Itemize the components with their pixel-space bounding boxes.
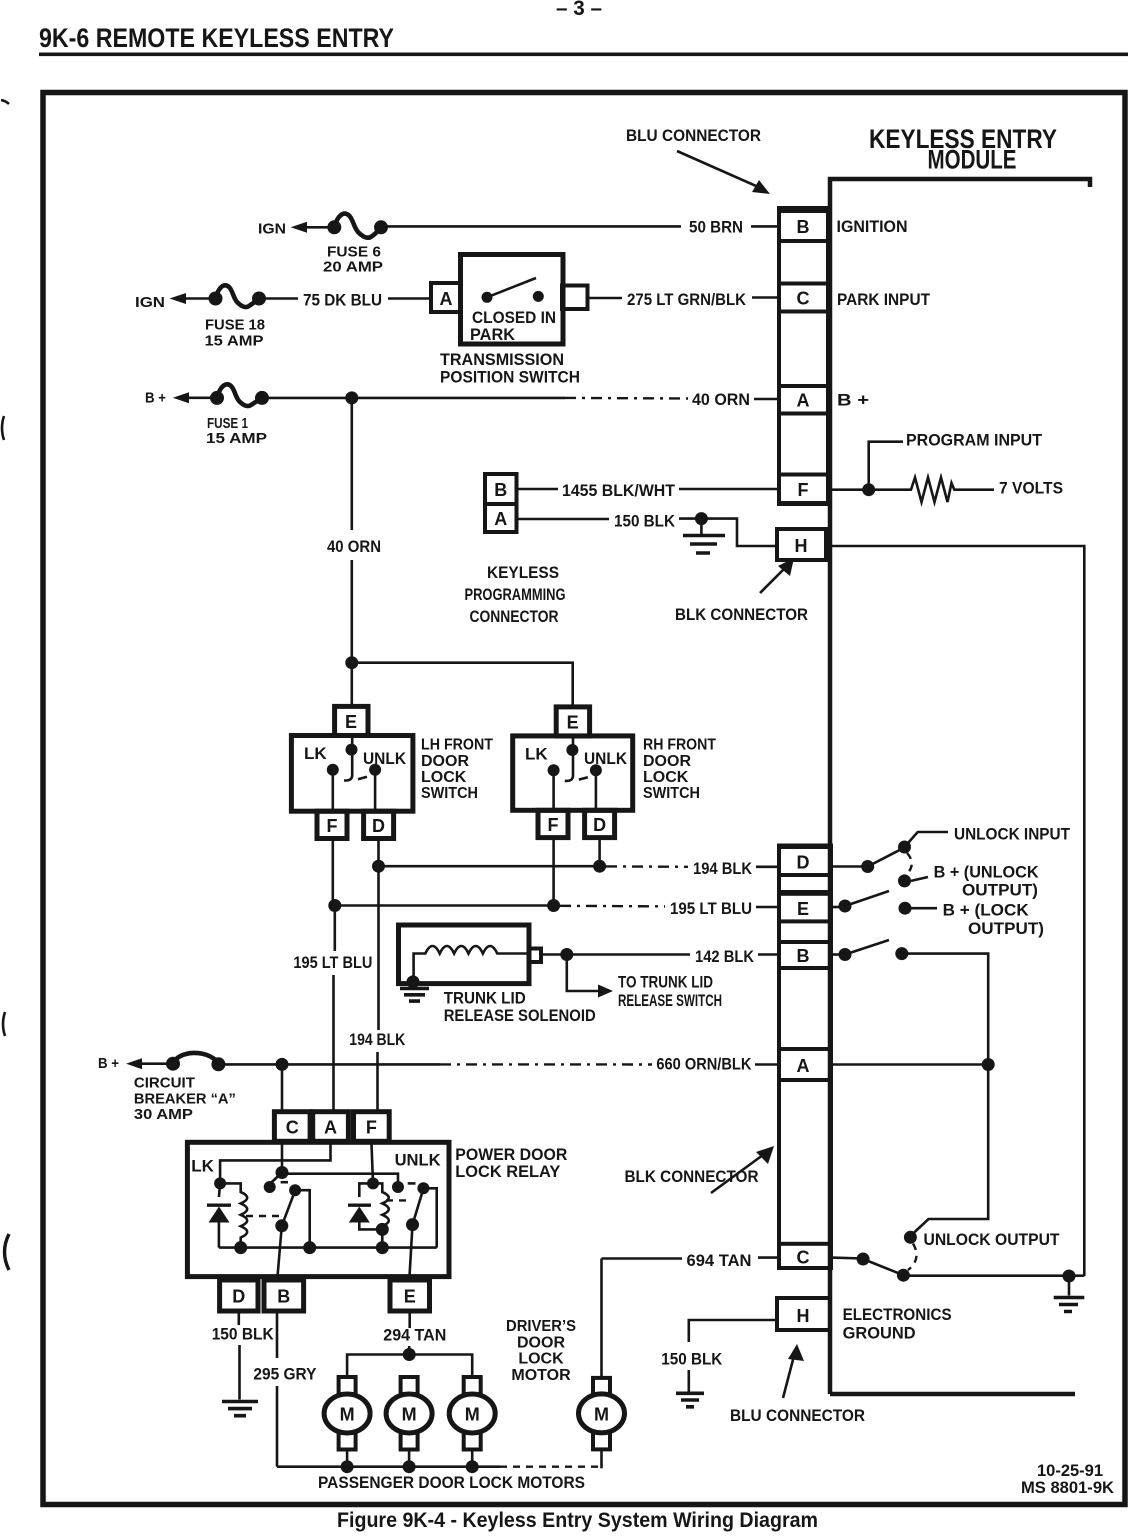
motor M2 body — [386, 1394, 432, 1433]
BLK connector strip outline — [779, 846, 831, 1269]
svg-text:A: A — [494, 509, 507, 529]
fuse F6 20A — [334, 214, 381, 238]
wire 195 LT BLU row — [335, 904, 554, 907]
wire relay E down 294 TAN — [408, 1311, 411, 1355]
svg-text:CONNECTOR: CONNECTOR — [470, 607, 559, 626]
node LH F 195 — [328, 899, 341, 912]
wire 275 LT GRN/BLK — [588, 297, 623, 300]
svg-text:DOOR: DOOR — [643, 753, 691, 770]
wire tick to pin A — [754, 398, 779, 401]
node LK common feed — [276, 1166, 289, 1179]
node LK NO contact bottom — [303, 1241, 316, 1254]
ground symbol solenoid — [400, 989, 429, 1002]
motor M1 bottom tab — [339, 1433, 356, 1450]
svg-text:15 AMP: 15 AMP — [205, 333, 264, 350]
svg-text:D: D — [797, 853, 810, 873]
svg-text:DOOR: DOOR — [421, 753, 469, 770]
keyless entry module outline — [830, 179, 1090, 1394]
svg-text:A: A — [797, 391, 810, 411]
LH switch pin E box — [335, 706, 368, 735]
node 294 TAN bus — [403, 1348, 416, 1361]
svg-text:B +: B + — [145, 390, 166, 407]
left margin scan mark 2 — [2, 416, 4, 440]
LH UNLK contact dot — [369, 764, 381, 776]
wire C into relay — [281, 1141, 284, 1172]
wire 694 TAN down to drivers motor — [600, 1259, 603, 1378]
LK arm tip dot — [289, 1184, 301, 1196]
wire program input riser — [869, 442, 903, 490]
LH pin F box — [317, 811, 347, 838]
wire 195 dash-dot — [560, 905, 665, 908]
pin C cell — [779, 284, 828, 312]
node program input — [862, 483, 875, 496]
svg-text:POSITION SWITCH: POSITION SWITCH — [440, 368, 580, 387]
wire branch to LH switch — [350, 663, 353, 707]
motor M1 bottom stub — [346, 1450, 349, 1467]
svg-text:H: H — [795, 536, 808, 556]
UNLK pivot to E terminal — [410, 1225, 413, 1277]
LK diode triangle — [209, 1207, 230, 1223]
left margin scan mark 1 — [1, 100, 9, 104]
wire 195 tick to pin E — [756, 906, 779, 909]
LH front door lock switch box — [291, 736, 413, 812]
svg-text:E: E — [345, 712, 357, 732]
B+ arrowhead row3 — [173, 392, 189, 403]
wire node to pin H — [701, 519, 777, 546]
wire 195 vertical lower — [332, 975, 335, 1112]
svg-text:ELECTRONICS: ELECTRONICS — [843, 1305, 952, 1324]
BLU connector arrowhead — [752, 180, 770, 194]
node B common — [839, 948, 852, 961]
driver motor M4 bottom tab — [593, 1432, 610, 1449]
ground stub right — [1068, 1276, 1071, 1296]
svg-text:MOTOR: MOTOR — [511, 1367, 571, 1384]
RH pin F box — [538, 810, 568, 837]
wire 142 tick to pin B — [758, 953, 779, 956]
wire 194 vertical lower — [376, 1052, 379, 1112]
divider cell DE — [779, 875, 831, 892]
trunk release arrowhead — [598, 985, 613, 998]
svg-text:D: D — [593, 815, 606, 835]
motor return bus — [277, 1465, 500, 1468]
svg-text:M: M — [340, 1405, 355, 1425]
E switch arm open — [845, 891, 889, 906]
BLKCONN — [602, 846, 952, 1426]
fuse F1 left dot — [210, 391, 224, 405]
pin B cell lower — [779, 942, 831, 968]
svg-text:LOCK: LOCK — [518, 1351, 564, 1368]
node RH F 195 — [547, 899, 560, 912]
wire tick to pin C — [752, 296, 779, 299]
UNLK common contact dot — [392, 1181, 404, 1193]
svg-text:M: M — [402, 1405, 417, 1425]
node A bus junction — [982, 1058, 995, 1071]
svg-text:295 GRY: 295 GRY — [253, 1365, 317, 1384]
wire node to LK contact — [270, 1173, 282, 1185]
LK diode branch — [219, 1183, 220, 1247]
svg-text:UNLK: UNLK — [363, 749, 407, 768]
svg-text:660 ORN/BLK: 660 ORN/BLK — [656, 1055, 752, 1074]
svg-text:15 AMP: 15 AMP — [206, 430, 267, 447]
node fuse1 to 40 ORN vertical — [345, 391, 358, 404]
UNLK arm tip dot — [417, 1182, 429, 1194]
svg-text:RH FRONT: RH FRONT — [643, 737, 716, 754]
wire unlock input — [905, 832, 949, 847]
svg-text:40 ORN: 40 ORN — [692, 390, 750, 409]
SWITCHES — [291, 706, 779, 1112]
LK coil dashed linkage — [246, 1215, 281, 1217]
motor M1 top tab — [339, 1377, 356, 1394]
svg-text:B +: B + — [837, 391, 869, 410]
resistor 7 volts — [869, 478, 994, 503]
RH UNLK contact dot — [590, 764, 602, 776]
motor M2 bottom tab — [401, 1433, 418, 1450]
driver motor M4 body — [579, 1394, 625, 1433]
LH LK contact wire — [331, 770, 334, 812]
RH LK contact wire — [552, 770, 555, 812]
svg-text:IGNITION: IGNITION — [837, 217, 908, 236]
node B+ unlock output — [898, 874, 911, 887]
40 ORN vertical wire lower — [350, 560, 353, 663]
left margin scan mark 4 — [5, 1234, 10, 1270]
IGN arrowhead row2 — [170, 293, 187, 304]
wire relay B down 295 GRY — [276, 1311, 279, 1467]
LH throw dash — [358, 777, 367, 779]
svg-text:9K-6 REMOTE KEYLESS ENTRY: 9K-6 REMOTE KEYLESS ENTRY — [39, 23, 394, 53]
wire LH F down — [331, 839, 334, 906]
UNLK diode branch — [359, 1183, 382, 1229]
svg-text:194 BLK: 194 BLK — [349, 1030, 406, 1049]
wire node to relay pin C — [281, 1064, 284, 1112]
svg-text:B + (LOCK: B + (LOCK — [943, 901, 1030, 920]
wire pin F to junction — [830, 488, 870, 491]
driver motor M4 top tab — [593, 1378, 610, 1395]
MOTORS — [277, 1318, 625, 1492]
svg-text:F: F — [366, 1118, 377, 1138]
svg-text:OUTPUT): OUTPUT) — [962, 881, 1038, 900]
svg-text:294 TAN: 294 TAN — [383, 1326, 446, 1345]
fuse F1 15A — [217, 384, 262, 406]
fuse F18 left dot — [209, 292, 223, 306]
wire pin H bottom left — [689, 1320, 777, 1342]
wire 40 ORN horizontal — [264, 397, 565, 400]
RH throw dash — [579, 777, 588, 779]
svg-text:RELEASE SWITCH: RELEASE SWITCH — [618, 991, 722, 1010]
svg-text:M: M — [465, 1405, 480, 1425]
power door lock relay box — [187, 1142, 449, 1276]
wire tab to node — [541, 953, 567, 956]
LK pivot to B terminal — [278, 1226, 282, 1277]
node M3 return — [466, 1460, 479, 1473]
LH LK contact dot — [327, 764, 339, 776]
motor M3 bottom stub — [471, 1450, 474, 1467]
svg-text:E: E — [404, 1287, 416, 1307]
B+ arrowhead breaker — [126, 1058, 142, 1069]
module bottom edge — [830, 1392, 1075, 1397]
LK common contact dot — [264, 1181, 276, 1193]
ground symbol prog — [683, 536, 725, 554]
svg-text:IGN: IGN — [258, 221, 286, 238]
wire to pin A of switch — [388, 297, 431, 300]
BLK connector upper arrowhead — [778, 558, 794, 576]
svg-text:LK: LK — [304, 744, 327, 763]
wire 694 TAN — [602, 1257, 683, 1260]
LK diode cathode bar — [207, 1203, 231, 1206]
svg-text:UNLK: UNLK — [584, 749, 628, 768]
node M2 return — [403, 1460, 416, 1473]
pin D cell lower — [779, 847, 831, 875]
wire 150 BLK right — [679, 517, 701, 520]
RH switch pin E box — [556, 707, 589, 736]
motor M3 bottom tab — [464, 1433, 481, 1450]
UNLK coil — [373, 1183, 389, 1247]
RH pole dot — [566, 744, 578, 756]
wire F into relay — [371, 1141, 373, 1183]
relay pin E box — [390, 1280, 430, 1311]
wire pin A 660 to bus — [831, 1063, 988, 1066]
wire pin E to switch — [831, 906, 845, 909]
node right bus ground — [1063, 1270, 1076, 1283]
svg-text:BLU CONNECTOR: BLU CONNECTOR — [626, 126, 761, 145]
LK coil — [220, 1183, 247, 1247]
relay pin F box — [354, 1112, 390, 1142]
svg-text:150 BLK: 150 BLK — [661, 1350, 723, 1369]
pin E cell lower — [779, 894, 831, 922]
RH switch pole wire — [565, 736, 573, 781]
wire arrow to fuse6 — [305, 226, 335, 229]
motor return bus dashed — [500, 1465, 602, 1467]
wire arrow to fuse1 — [187, 396, 217, 399]
svg-text:B: B — [277, 1287, 290, 1307]
tick B+ lock output — [911, 907, 937, 910]
RH pin D box — [585, 810, 615, 837]
svg-text:PROGRAMMING: PROGRAMMING — [465, 585, 566, 604]
LH UNLK contact wire — [374, 770, 377, 812]
svg-text:150 BLK: 150 BLK — [614, 512, 676, 531]
wire to trunk release arrow — [567, 955, 601, 992]
svg-text:PARK INPUT: PARK INPUT — [837, 290, 931, 309]
D switch arm — [868, 848, 905, 867]
svg-text:PROGRAM INPUT: PROGRAM INPUT — [906, 431, 1043, 450]
svg-text:BLK CONNECTOR: BLK CONNECTOR — [675, 605, 808, 624]
svg-text:B +: B + — [98, 1055, 119, 1072]
svg-text:UNLOCK OUTPUT: UNLOCK OUTPUT — [924, 1230, 1061, 1249]
BLU connector strip outline — [779, 208, 828, 504]
node LK coil top — [214, 1177, 226, 1189]
ground stub prog — [700, 519, 703, 534]
fuse F6 right dot — [374, 220, 388, 234]
svg-text:OUTPUT): OUTPUT) — [968, 919, 1044, 938]
breaker left dot — [166, 1057, 180, 1071]
wire 1455 BLK/WHT right to pin F — [679, 488, 779, 491]
pin F cell — [779, 475, 828, 504]
wire 50 BRN — [380, 225, 681, 228]
svg-text:40 ORN: 40 ORN — [327, 537, 381, 556]
node UNLK diode bottom — [376, 1223, 389, 1236]
solenoid output tab — [529, 949, 541, 963]
svg-text:LK: LK — [191, 1157, 214, 1176]
node LK coil bottom — [234, 1241, 247, 1254]
ground symbol relay D — [222, 1402, 258, 1416]
svg-text:B: B — [797, 217, 810, 237]
svg-text:BLU CONNECTOR: BLU CONNECTOR — [730, 1406, 865, 1425]
wire 195 vertical upper — [333, 906, 336, 952]
svg-text:30 AMP: 30 AMP — [134, 1106, 193, 1123]
wire relay D down — [238, 1311, 241, 1325]
LK switch arm — [282, 1191, 295, 1226]
svg-text:PASSENGER DOOR LOCK MOTORS: PASSENGER DOOR LOCK MOTORS — [318, 1473, 585, 1492]
wire RH F down — [552, 838, 555, 906]
svg-text:A: A — [440, 289, 453, 309]
wire branch to RH switch — [352, 663, 573, 707]
node C arm end — [897, 1269, 910, 1282]
svg-text:7 VOLTS: 7 VOLTS — [999, 479, 1063, 498]
relay pin B box — [264, 1280, 304, 1311]
wire 194 BLK row — [379, 865, 600, 868]
pin A cell lower — [779, 1049, 831, 1080]
UNLK switch arm — [413, 1189, 424, 1225]
pin H cell bottom — [777, 1298, 830, 1330]
relay pin D box — [220, 1280, 258, 1311]
svg-text:IGN: IGN — [135, 294, 165, 311]
FOOTER — [337, 1461, 1115, 1532]
svg-text:A: A — [797, 1056, 810, 1076]
svg-text:C: C — [797, 1248, 810, 1268]
svg-text:TRUNK LID: TRUNK LID — [444, 989, 526, 1008]
motor M2 bottom stub — [408, 1450, 411, 1467]
RH LK contact dot — [548, 764, 560, 776]
RELAY — [98, 1053, 779, 1467]
programming connector pin A box — [485, 504, 517, 532]
motor M1 body — [324, 1394, 370, 1433]
LH pin D box — [364, 811, 394, 838]
UNLK diode triangle — [349, 1207, 370, 1223]
fuse F1 right dot — [255, 391, 269, 405]
node UNLK coil bottom — [376, 1241, 389, 1254]
BLUCONN — [626, 126, 828, 624]
wire 150 BLK left — [517, 518, 610, 521]
svg-text:Figure 9K-4 - Keyless Entry Sy: Figure 9K-4 - Keyless Entry System Wirin… — [337, 1509, 818, 1532]
svg-text:F: F — [798, 480, 809, 500]
RH front door lock switch box — [513, 736, 633, 810]
transmission position switch box — [461, 255, 564, 345]
LK NO contact wire — [295, 1190, 310, 1247]
wire 1455 BLK/WHT left — [517, 488, 559, 491]
UNLK NO contact wire — [423, 1188, 436, 1247]
svg-text:DOOR: DOOR — [517, 1334, 565, 1351]
BLU connector bottom arrowhead — [788, 1344, 804, 1361]
node unlock output upper — [904, 1231, 917, 1244]
node E common — [839, 900, 852, 913]
UNLK switch pivot dot — [406, 1218, 419, 1231]
pin H cell upper — [777, 529, 826, 560]
wire pin C to switch — [831, 1256, 863, 1260]
svg-text:LK: LK — [525, 745, 548, 764]
svg-text:694 TAN: 694 TAN — [687, 1251, 752, 1270]
svg-text:SWITCH: SWITCH — [421, 785, 478, 802]
pin B cell — [779, 211, 828, 241]
wire LK to UNLK contact link — [282, 1174, 398, 1186]
wire unlock output to ground bus — [903, 1274, 1084, 1277]
node 40 ORN branch — [345, 656, 358, 669]
RIGHTSW — [831, 825, 1084, 1312]
svg-text:E: E — [567, 713, 579, 733]
ROWS123 — [135, 214, 931, 447]
BLK connector upper arrow — [760, 564, 789, 593]
wire B contact to right bus — [902, 954, 988, 1235]
node UNLK coil top — [367, 1177, 379, 1189]
svg-text:RELEASE SOLENOID: RELEASE SOLENOID — [444, 1006, 596, 1025]
fuse F6 left dot — [327, 220, 341, 234]
svg-text:M: M — [594, 1405, 609, 1425]
svg-text:A: A — [324, 1118, 337, 1138]
svg-text:F: F — [327, 816, 338, 836]
node 150 BLK ground — [695, 512, 708, 525]
svg-text:195 LT BLU: 195 LT BLU — [670, 899, 752, 918]
svg-text:C: C — [797, 289, 810, 309]
pin C cell lower — [779, 1244, 831, 1268]
svg-text:UNLK: UNLK — [395, 1151, 442, 1170]
title underline — [39, 53, 1128, 57]
BLK connector lower arrowhead — [756, 1146, 774, 1164]
svg-text:195 LT BLU: 195 LT BLU — [293, 953, 372, 972]
svg-text:D: D — [232, 1287, 245, 1307]
svg-text:194 BLK: 194 BLK — [693, 859, 753, 878]
wire LH D down — [377, 839, 380, 867]
wire 660 dash-dot — [440, 1063, 652, 1065]
wire 40 ORN dash-dot — [565, 397, 688, 400]
node B+ lock output — [899, 902, 912, 915]
node C common — [857, 1253, 870, 1266]
svg-text:B + (UNLOCK: B + (UNLOCK — [934, 863, 1040, 882]
switch right tab — [562, 286, 588, 310]
motor feed bus — [347, 1355, 472, 1378]
svg-text:142 BLK: 142 BLK — [695, 947, 755, 966]
svg-text:PARK: PARK — [470, 325, 516, 344]
svg-text:B: B — [494, 480, 507, 500]
motor M2 top tab — [401, 1377, 418, 1394]
solenoid ground dot — [407, 975, 420, 988]
node relay C drop — [276, 1058, 289, 1071]
B switch arm open — [845, 940, 889, 955]
svg-text:50 BRN: 50 BRN — [689, 218, 743, 237]
svg-text:E: E — [797, 899, 809, 919]
wire 660 tick to pin A — [755, 1063, 779, 1066]
RH UNLK contact wire — [595, 770, 598, 812]
svg-text:150 BLK: 150 BLK — [212, 1325, 275, 1344]
wire 150 BLK bottom stub — [687, 1370, 690, 1392]
svg-text:20 AMP: 20 AMP — [323, 259, 383, 276]
ground symbol right — [1054, 1298, 1085, 1312]
svg-text:KEYLESS: KEYLESS — [487, 563, 559, 582]
wire fuse18 to label — [259, 297, 298, 300]
svg-text:MS 8801-9K: MS 8801-9K — [1021, 1478, 1115, 1497]
SOLENOID — [399, 925, 780, 1025]
relay pin C box — [274, 1112, 310, 1142]
svg-text:GROUND: GROUND — [843, 1324, 916, 1343]
relay bottom bus — [219, 1246, 437, 1249]
breaker right dot — [211, 1057, 225, 1071]
node 142 BLK — [560, 948, 573, 961]
svg-text:BREAKER “A”: BREAKER “A” — [134, 1090, 236, 1107]
switch right contact dot — [533, 291, 544, 302]
wire 694 tick to pin C — [758, 1256, 779, 1259]
motor M3 body — [449, 1394, 495, 1433]
node unlock input — [898, 841, 911, 854]
svg-text:H: H — [797, 1306, 810, 1326]
ground symbol bottom H — [676, 1393, 704, 1407]
node M1 return — [341, 1460, 354, 1473]
